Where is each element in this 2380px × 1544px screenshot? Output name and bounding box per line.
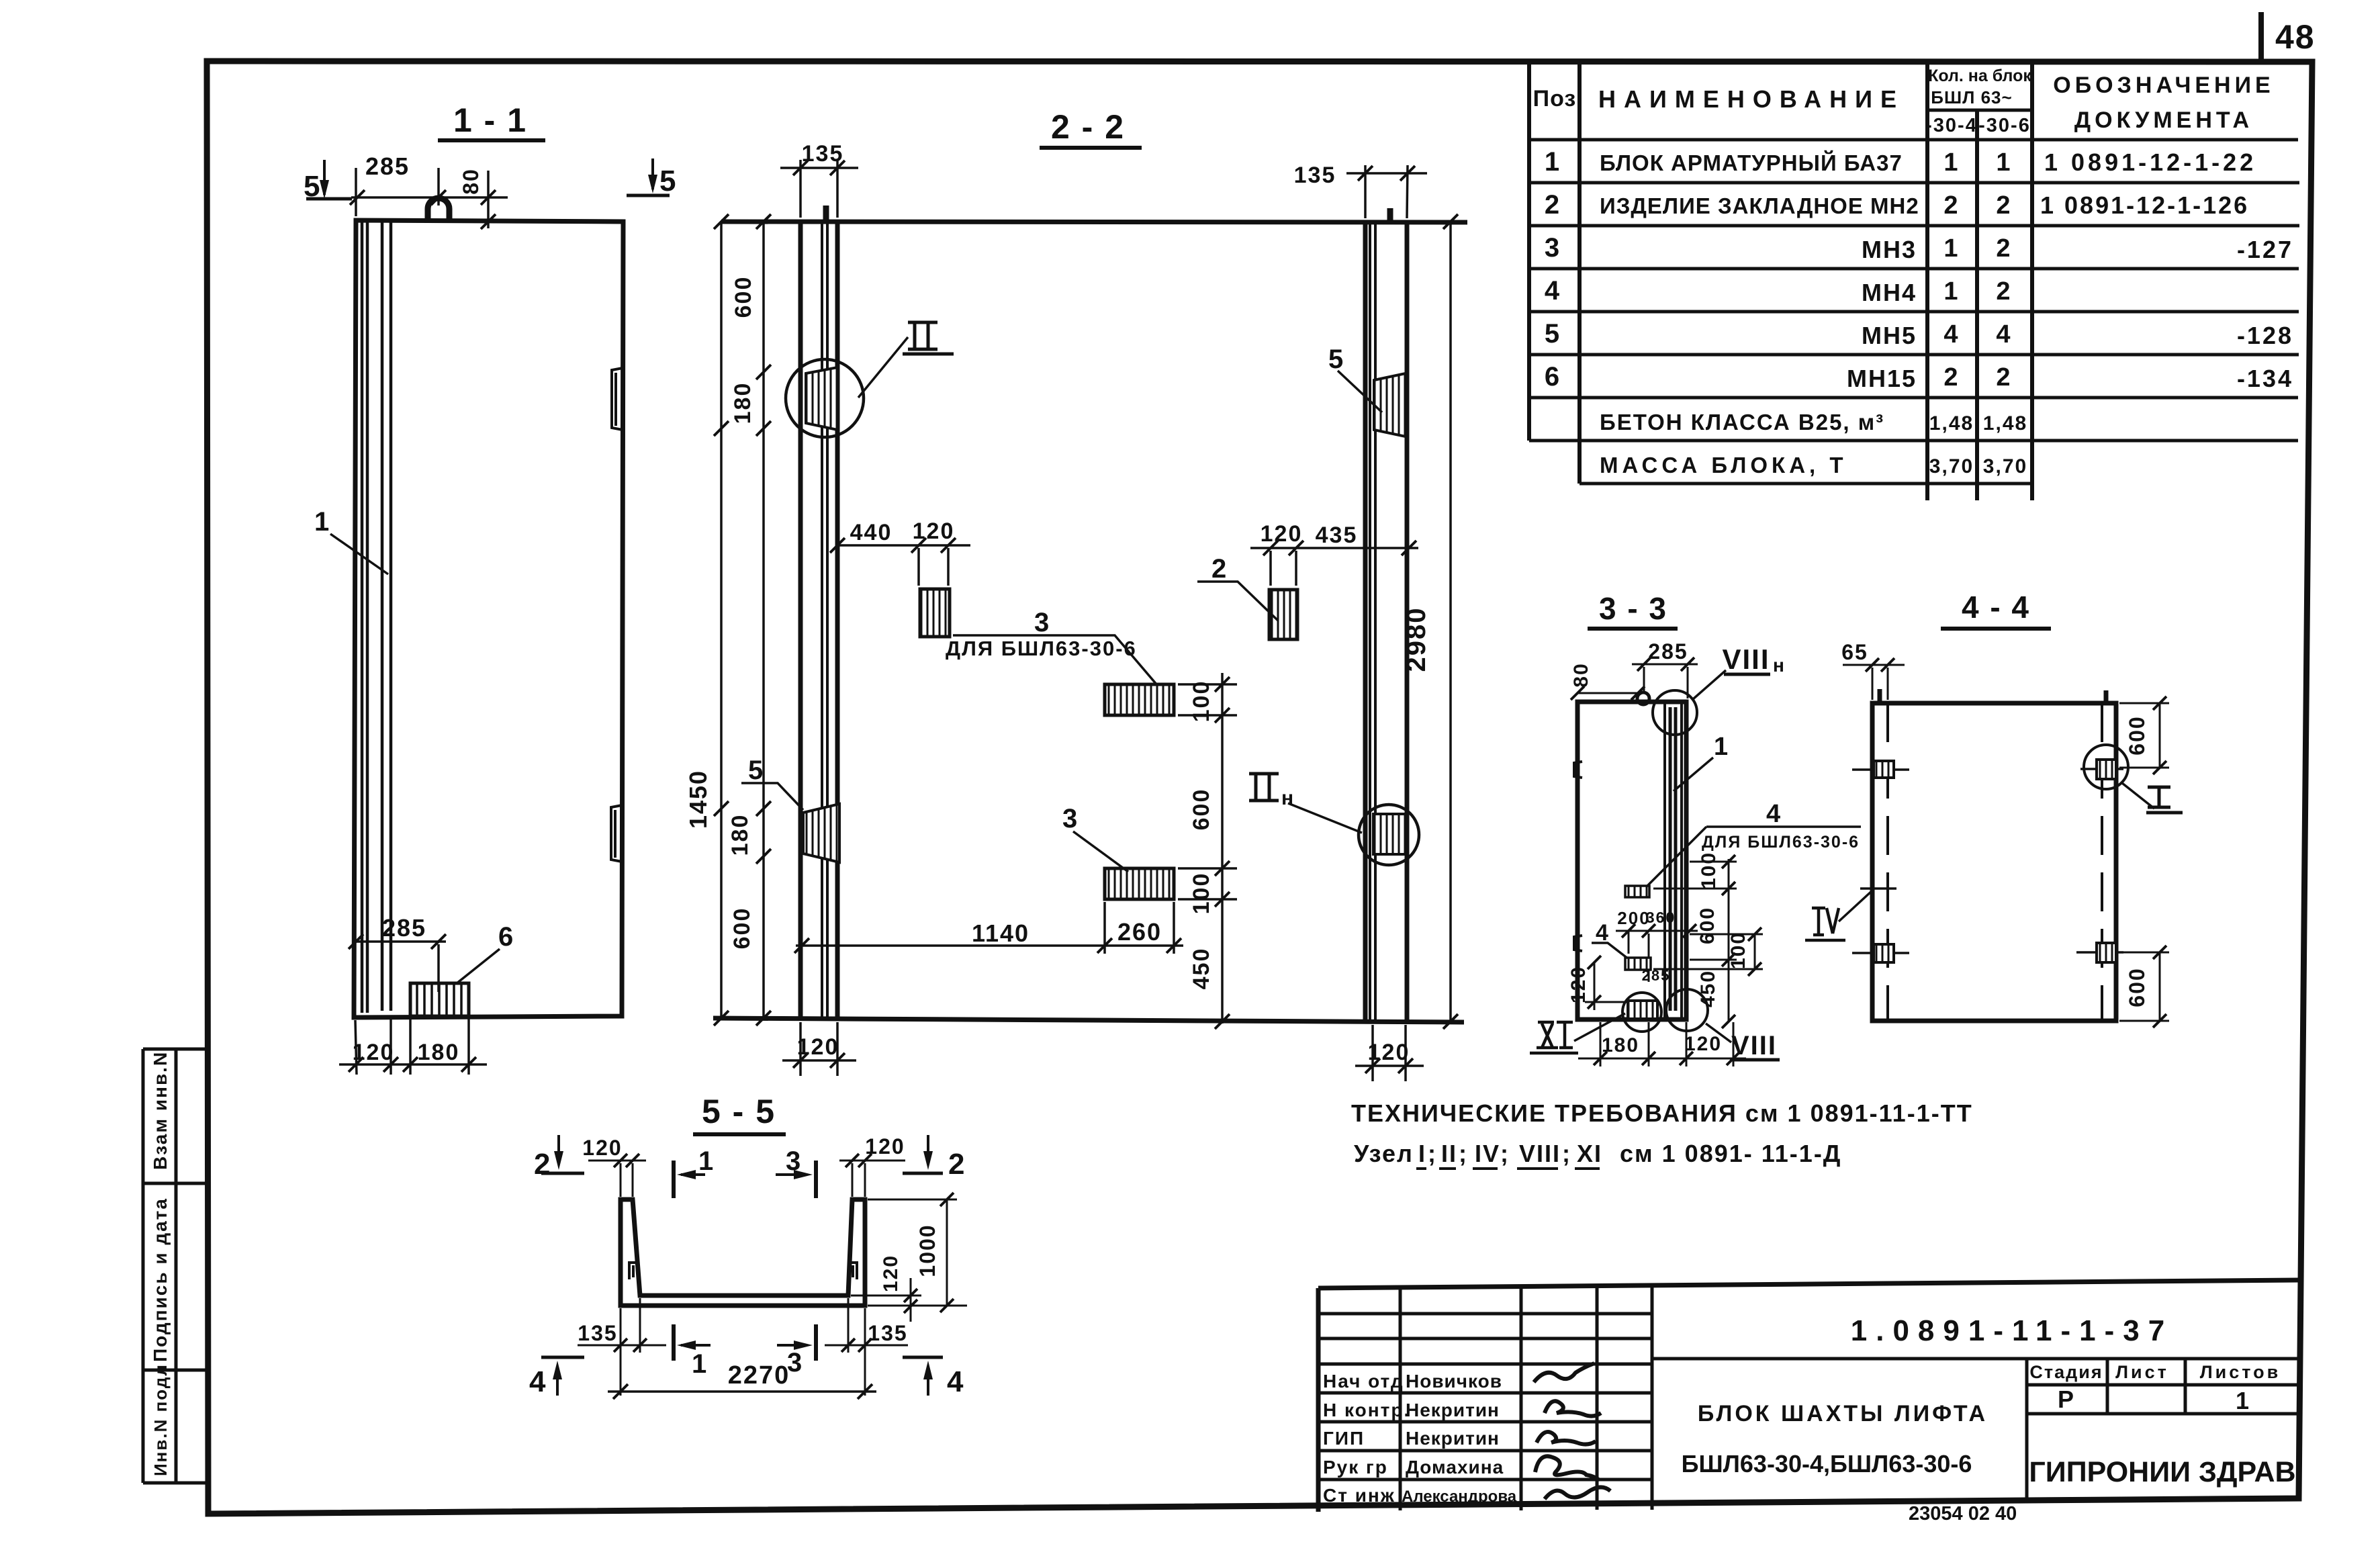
panel outline 4-4	[1872, 703, 2116, 1021]
right wall 2-2	[1365, 222, 1407, 1021]
svg-text:285: 285	[1642, 967, 1671, 984]
marker 1 top	[672, 1161, 676, 1198]
label II with leader	[858, 337, 908, 398]
bottom edge 2-2	[713, 1018, 1464, 1022]
svg-text:4: 4	[1545, 276, 1561, 306]
svg-text:3,70: 3,70	[1929, 455, 1974, 478]
svg-text:1: 1	[314, 507, 330, 537]
svg-text:120: 120	[1261, 521, 1303, 547]
svg-text:120: 120	[582, 1136, 622, 1160]
svg-text:4: 4	[1766, 800, 1782, 828]
marker 2 top right	[927, 1135, 929, 1165]
section marker 5 right	[651, 158, 654, 189]
dims 180 120 bottom 3-3	[1578, 1022, 1746, 1066]
left edge bracket lower 3-3	[1574, 936, 1582, 951]
svg-text:135: 135	[868, 1321, 907, 1345]
svg-text:600: 600	[1189, 788, 1214, 831]
svg-text:2 - 2: 2 - 2	[1051, 108, 1125, 146]
dim row 440 120	[837, 545, 970, 586]
dim 120 bottom left wall	[782, 1022, 856, 1076]
svg-text:н: н	[1773, 655, 1786, 676]
svg-text:ДЛЯ БШЛ63-30-6: ДЛЯ БШЛ63-30-6	[946, 637, 1137, 660]
svg-text:450: 450	[1189, 948, 1214, 990]
left dim chain outer 1450	[720, 222, 723, 1018]
svg-text:ДЛЯ БШЛ63-30-6: ДЛЯ БШЛ63-30-6	[1702, 833, 1860, 852]
svg-text:100: 100	[1727, 932, 1749, 969]
svg-text:120: 120	[880, 1255, 902, 1292]
svg-text:600: 600	[2125, 967, 2149, 1007]
svg-text:3: 3	[1034, 608, 1050, 637]
embed hatched in circle IIn	[1373, 814, 1406, 854]
svg-text:120: 120	[1684, 1033, 1722, 1055]
svg-text:1.0891-11-1-37: 1.0891-11-1-37	[1851, 1314, 2173, 1347]
svg-text:Некритин: Некритин	[1406, 1400, 1500, 1420]
dim 285 top 3-3	[1632, 664, 1698, 698]
svg-text:1: 1	[1943, 234, 1959, 263]
svg-text:285: 285	[1648, 639, 1688, 664]
svg-text:МН4: МН4	[1862, 279, 1917, 306]
left wall 2-2	[800, 222, 837, 1018]
dim 120 slab right 5-5	[851, 1278, 967, 1322]
left wall rails	[822, 222, 827, 1018]
dim 65 top left 4-4	[1843, 665, 1905, 700]
svg-text:МН15: МН15	[1847, 365, 1917, 392]
svg-text:Кол. на блок: Кол. на блок	[1928, 66, 2031, 85]
svg-text:2: 2	[948, 1148, 966, 1181]
svg-text:1 0891-12-1-22: 1 0891-12-1-22	[2044, 148, 2256, 176]
dim 135 top right	[1346, 165, 1427, 218]
svg-text:100: 100	[1189, 872, 1214, 915]
svg-text:Инв.N подл: Инв.N подл	[150, 1363, 171, 1476]
svg-text:600: 600	[2125, 715, 2149, 755]
svg-text:ОБОЗНАЧЕНИЕ: ОБОЗНАЧЕНИЕ	[2053, 73, 2274, 98]
dim 135 top left	[780, 160, 858, 218]
svg-text:23054 02 40: 23054 02 40	[1909, 1503, 2017, 1525]
right edge notch lower 1-1	[611, 805, 622, 862]
svg-text:135: 135	[578, 1321, 617, 1345]
detail circle II on left wall	[786, 359, 864, 437]
dim 600 top right 4-4	[2119, 703, 2169, 768]
detail circle VIII bottom	[1666, 989, 1708, 1031]
svg-text:ГИПРОНИИ ЗДРАВ: ГИПРОНИИ ЗДРАВ	[2029, 1456, 2295, 1488]
channel outline 5-5	[621, 1199, 865, 1306]
top rail ticks 4-4	[1880, 689, 2106, 703]
embed right bottom 4-4	[2076, 951, 2123, 954]
svg-text:1: 1	[1943, 148, 1959, 177]
svg-text:2: 2	[1545, 190, 1561, 220]
svg-text:Подпись и дата: Подпись и дата	[150, 1197, 171, 1362]
detail circle VIIIn top	[1653, 690, 1697, 735]
svg-text:450: 450	[1697, 970, 1719, 1007]
embed left bottom 4-4	[1852, 952, 1909, 954]
svg-text:Нач отд: Нач отд	[1323, 1371, 1404, 1392]
svg-text:I;: I;	[1418, 1140, 1437, 1167]
right wall rails	[1370, 222, 1375, 1021]
svg-text:НАИМЕНОВАНИЕ: НАИМЕНОВАНИЕ	[1598, 85, 1905, 113]
dim 285 bottom 1-1	[353, 942, 446, 992]
dim row 120 435	[1250, 548, 1418, 586]
svg-text:135: 135	[802, 141, 844, 167]
svg-text:180: 180	[730, 382, 756, 424]
right edge notch upper 1-1	[612, 368, 623, 430]
embed mark left wall 5-5	[629, 1263, 636, 1279]
svg-text:-128: -128	[2237, 322, 2293, 349]
svg-text:ТЕХНИЧЕСКИЕ ТРЕБОВАНИЯ см 1: ТЕХНИЧЕСКИЕ ТРЕБОВАНИЯ см 1 0891-11-1-ТТ	[1351, 1099, 1973, 1127]
svg-text:3,70: 3,70	[1983, 455, 2027, 478]
svg-text:80: 80	[459, 168, 483, 195]
embed MN5 pos5 right wall upper	[1374, 373, 1406, 437]
dim 600 bottom right 4-4	[2119, 952, 2169, 1021]
svg-text:1 0891-12-1-126: 1 0891-12-1-126	[2040, 191, 2249, 219]
svg-text:Взам инв.N: Взам инв.N	[150, 1051, 171, 1170]
embed MN5 pos5 left wall lower	[803, 804, 839, 862]
sheet page number tick	[2258, 12, 2264, 60]
svg-text:1: 1	[1996, 148, 2011, 177]
lifting loop 1-1	[428, 198, 449, 220]
svg-text:5: 5	[659, 165, 677, 197]
svg-text:Стадия: Стадия	[2029, 1362, 2103, 1382]
svg-text:БЛОК ШАХТЫ ЛИФТА: БЛОК ШАХТЫ ЛИФТА	[1698, 1401, 1988, 1426]
svg-text:120: 120	[913, 518, 955, 544]
svg-text:1140: 1140	[972, 919, 1029, 947]
svg-text:120: 120	[353, 1040, 395, 1065]
embed pos3 upper	[920, 589, 950, 637]
svg-text:120: 120	[1567, 966, 1590, 1003]
dim 80 top 3-3	[1577, 692, 1641, 694]
dashed rail lines 4-4	[1888, 703, 2102, 1021]
svg-text:БЛОК АРМАТУРНЫЙ БА37: БЛОК АРМАТУРНЫЙ БА37	[1600, 150, 1903, 175]
svg-text:Узел: Узел	[1354, 1140, 1414, 1167]
svg-text:2: 2	[1211, 554, 1228, 584]
signature squiggles	[1534, 1363, 1594, 1382]
svg-text:5: 5	[1545, 319, 1561, 349]
svg-text:600: 600	[729, 907, 755, 950]
svg-text:2980: 2980	[1402, 607, 1431, 672]
svg-text:2: 2	[1943, 363, 1959, 392]
underlines for node numerals	[1416, 1167, 1600, 1170]
dim 120 bottom right wall	[1355, 1025, 1424, 1081]
svg-text:285: 285	[365, 152, 410, 180]
svg-text:1: 1	[2236, 1387, 2250, 1414]
dim 285 top 1-1	[351, 168, 508, 216]
svg-text:5 - 5: 5 - 5	[702, 1093, 776, 1130]
svg-text:100: 100	[1189, 680, 1214, 723]
svg-text:-134: -134	[2237, 365, 2293, 392]
svg-text:Новичков: Новичков	[1406, 1371, 1502, 1392]
svg-text:180: 180	[727, 814, 753, 856]
svg-text:435: 435	[1316, 523, 1358, 548]
svg-text:-30-6: -30-6	[1978, 115, 2031, 136]
svg-text:3 - 3: 3 - 3	[1599, 591, 1667, 626]
offset dim 100 outer 3-3	[1653, 934, 1763, 969]
svg-text:Лист: Лист	[2115, 1362, 2169, 1382]
svg-text:Поз: Поз	[1533, 86, 1577, 111]
svg-text:260: 260	[1117, 918, 1162, 946]
detail circle XI bottom	[1622, 993, 1661, 1032]
panel outline 3-3	[1577, 702, 1686, 1019]
label IV with leader	[1805, 908, 1845, 940]
embed MN2 hatched in circle II	[806, 367, 837, 430]
embed pos2	[1269, 590, 1297, 639]
svg-text:120: 120	[797, 1034, 839, 1060]
svg-text:XI: XI	[1577, 1140, 1602, 1167]
svg-text:2: 2	[534, 1148, 551, 1181]
svg-text:Р: Р	[2058, 1386, 2075, 1413]
svg-text:VIII: VIII	[1722, 643, 1770, 675]
label IIn with leader	[1249, 774, 1279, 801]
svg-text:МН5: МН5	[1862, 322, 1917, 349]
dim 120 top left 5-5	[588, 1161, 646, 1197]
svg-text:Домахина: Домахина	[1406, 1457, 1504, 1478]
wall top rail ticks	[826, 206, 1390, 222]
svg-text:БШЛ63-30-4,БШЛ63-30-6: БШЛ63-30-4,БШЛ63-30-6	[1682, 1450, 1972, 1478]
svg-text:4: 4	[529, 1365, 547, 1398]
svg-text:3: 3	[1545, 233, 1561, 263]
svg-text:6: 6	[1545, 362, 1561, 392]
svg-text:Листов: Листов	[2200, 1362, 2281, 1382]
parts table grid	[1529, 60, 2032, 500]
dim 2270 bottom 5-5	[608, 1390, 876, 1393]
svg-text:80: 80	[1570, 662, 1592, 687]
embed right top 4-4	[2080, 768, 2123, 770]
embed pos3 lower	[1105, 868, 1174, 899]
svg-text:1,48: 1,48	[1983, 412, 2027, 435]
right middle dim chain 100 600 100 450	[1178, 673, 1237, 1024]
svg-text:5: 5	[1328, 345, 1344, 374]
embed mark right wall 5-5	[850, 1263, 857, 1279]
dim 2980 right	[1449, 222, 1452, 1021]
embed hatched in circle XI	[1628, 1001, 1657, 1019]
svg-text:1: 1	[1714, 733, 1729, 761]
svg-text:1: 1	[1545, 147, 1561, 177]
svg-text:Некритин: Некритин	[1406, 1428, 1500, 1449]
svg-text:65: 65	[1841, 640, 1868, 664]
left edge bracket upper 3-3	[1574, 762, 1582, 778]
detail circle I	[2084, 745, 2128, 789]
svg-text:2: 2	[1996, 234, 2011, 263]
dim 120 left bottom 3-3	[1585, 962, 1631, 1010]
svg-text:3: 3	[1062, 804, 1079, 833]
detail circle IIn on right wall	[1359, 805, 1419, 865]
svg-text:4: 4	[1996, 320, 2011, 349]
svg-text:МН3: МН3	[1862, 236, 1917, 263]
top edge 2-2	[721, 222, 1467, 222]
dim 80 top 1-1	[487, 171, 490, 228]
svg-text:2: 2	[1943, 191, 1959, 220]
svg-text:Н контр.: Н контр.	[1323, 1400, 1410, 1420]
svg-text:1 - 1: 1 - 1	[453, 101, 527, 139]
svg-text:ДОКУМЕНТА: ДОКУМЕНТА	[2074, 107, 2253, 133]
svg-text:МАССА БЛОКА, Т: МАССА БЛОКА, Т	[1600, 453, 1847, 478]
svg-text:VIII;: VIII;	[1519, 1140, 1571, 1167]
dim 120 top right 5-5	[839, 1161, 905, 1197]
svg-text:440: 440	[850, 520, 892, 545]
label I with leader	[2122, 783, 2154, 809]
svg-text:120: 120	[865, 1134, 905, 1159]
svg-text:1000: 1000	[915, 1224, 940, 1277]
svg-text:Рук гр: Рук гр	[1323, 1457, 1388, 1478]
right dim chain 3-3	[1653, 859, 1737, 1022]
svg-text:135: 135	[1294, 163, 1336, 188]
svg-text:2270: 2270	[728, 1361, 790, 1390]
svg-text:1: 1	[698, 1146, 715, 1176]
label VIIIn with leader	[1693, 670, 1726, 699]
svg-text:2: 2	[1996, 363, 2011, 392]
svg-text:2: 2	[1996, 277, 2011, 306]
svg-text:360: 360	[1646, 909, 1676, 926]
embed left top 4-4	[1852, 768, 1909, 771]
embed MN15 pos6 1-1	[410, 983, 469, 1016]
svg-text:VIII: VIII	[1731, 1031, 1777, 1060]
svg-text:4: 4	[947, 1365, 964, 1398]
svg-text:2: 2	[1996, 191, 2011, 220]
svg-text:5: 5	[748, 756, 764, 785]
svg-text:-30-4: -30-4	[1925, 115, 1978, 136]
svg-text:1,48: 1,48	[1929, 412, 1974, 435]
dim 135 bottom left 5-5	[578, 1298, 666, 1396]
embed MN4 lower small	[1625, 958, 1651, 970]
svg-text:600: 600	[731, 276, 756, 318]
embed MN4 upper small	[1625, 886, 1649, 897]
dim 1000 right 5-5	[868, 1199, 957, 1306]
svg-text:100: 100	[1698, 852, 1720, 889]
dim row 1140 260	[796, 902, 1183, 954]
svg-text:4 - 4: 4 - 4	[1962, 590, 2030, 625]
svg-text:ИЗДЕЛИЕ ЗАКЛАДНОЕ МН2: ИЗДЕЛИЕ ЗАКЛАДНОЕ МН2	[1600, 193, 1919, 218]
dims 120 180 bottom 1-1	[339, 1019, 487, 1075]
svg-text:БЕТОН КЛАССА В25, м³: БЕТОН КЛАССА В25, м³	[1600, 410, 1884, 435]
svg-text:1450: 1450	[684, 770, 712, 829]
svg-text:Александрова: Александрова	[1402, 1488, 1517, 1506]
svg-text:IV;: IV;	[1475, 1140, 1510, 1167]
label XI with leader	[1530, 1022, 1578, 1053]
svg-text:48: 48	[2275, 18, 2316, 56]
left margin stamp box	[143, 1049, 208, 1483]
panel outline 1-1	[354, 220, 623, 1017]
svg-text:6: 6	[498, 922, 514, 952]
left dim chain inner	[762, 222, 765, 1018]
svg-text:см 1 0891- 11-1-Д: см 1 0891- 11-1-Д	[1620, 1140, 1841, 1167]
svg-text:II;: II;	[1441, 1140, 1468, 1167]
title block grid	[1318, 1280, 2299, 1288]
svg-text:1: 1	[1943, 277, 1959, 306]
marker 4 bottom right	[927, 1366, 929, 1396]
svg-text:180: 180	[418, 1040, 460, 1065]
svg-text:120: 120	[1368, 1040, 1410, 1065]
svg-text:600: 600	[1696, 907, 1719, 944]
svg-text:4: 4	[1943, 320, 1959, 349]
rail channel 3-3	[1665, 702, 1682, 1019]
svg-text:Ст инж: Ст инж	[1323, 1485, 1395, 1506]
guide rails 1-1	[362, 222, 391, 1013]
embed pos3 middle	[1105, 684, 1174, 715]
dim 135 bottom right 5-5	[825, 1298, 908, 1396]
lifting loop 3-3	[1637, 692, 1649, 705]
svg-text:-127: -127	[2237, 236, 2293, 263]
svg-text:180: 180	[1602, 1034, 1639, 1056]
svg-text:ГИП: ГИП	[1323, 1428, 1365, 1449]
svg-text:БШЛ 63~: БШЛ 63~	[1931, 87, 2012, 107]
svg-text:285: 285	[382, 914, 426, 942]
svg-text:1: 1	[692, 1349, 708, 1379]
marker 1 bottom	[672, 1324, 676, 1361]
